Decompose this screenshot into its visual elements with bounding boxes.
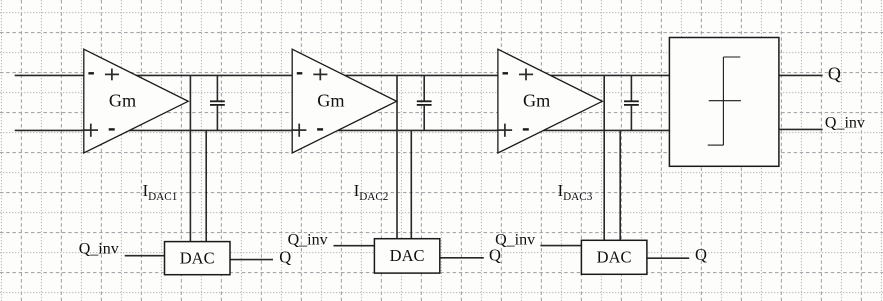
svg-text:Q: Q (279, 248, 291, 267)
svg-text:Q_inv: Q_inv (79, 240, 119, 257)
wire stage2 output node down to DAC2 (plus) (396, 75, 398, 238)
Gm1 input polarity marks (- + / + -) (83, 69, 119, 137)
Gm2 input polarity marks (- + / + -) (291, 69, 327, 137)
wire quantizer output Q (779, 74, 823, 76)
svg-text:Gm: Gm (523, 91, 550, 111)
wire stage1 bottom rail down to DAC1 (minus) (205, 130, 207, 241)
svg-text:Q_inv: Q_inv (495, 232, 535, 249)
comparator / 1-bit quantizer U4 box (669, 38, 779, 167)
node label Q_inv at DAC2 input (288, 231, 328, 248)
capacitor C3 (624, 75, 639, 130)
wire Q feedback into DAC1 (230, 259, 273, 261)
op-amp transconductor Gm2 (292, 49, 396, 153)
svg-text:Gm: Gm (317, 91, 344, 111)
capacitor C2 (417, 75, 432, 130)
node label Q_inv at DAC1 input (79, 240, 119, 257)
node label Q quantizer output (828, 64, 841, 84)
svg-text:DAC: DAC (390, 246, 425, 265)
wire Q feedback into DAC2 (440, 257, 484, 259)
label IDAC3 current (558, 181, 593, 203)
svg-text:DAC: DAC (597, 248, 632, 267)
label IDAC1 current (143, 181, 178, 203)
wire stage3 bottom rail down to DAC3 (minus) (619, 130, 621, 240)
op-amp transconductor Gm1 (84, 49, 188, 153)
wire Q_inv feedback into DAC2 (334, 245, 375, 247)
wire Q_inv feedback into DAC3 (540, 245, 581, 247)
node label Q_inv quantizer output (825, 115, 865, 132)
node label Q at DAC2 input (489, 246, 501, 265)
svg-text:Q: Q (489, 246, 501, 265)
DAC1 block (165, 242, 231, 275)
wire stage3 output node down to DAC3 (plus) (603, 75, 605, 240)
svg-text:Q_inv: Q_inv (288, 231, 328, 248)
wire Q feedback into DAC3 (647, 257, 689, 259)
svg-text:DAC: DAC (180, 248, 215, 267)
wire quantizer output Q_inv (779, 128, 823, 130)
wire stage1 output node down to DAC1 (plus) (189, 75, 191, 241)
op-amp transconductor Gm3 (498, 49, 602, 153)
node label Q at DAC3 input (695, 245, 707, 264)
DAC2 block (374, 239, 439, 273)
svg-text:Gm: Gm (109, 91, 136, 111)
node label Q_inv at DAC3 input (495, 232, 535, 249)
wire Q_inv feedback into DAC1 (125, 255, 165, 257)
label IDAC2 current (354, 181, 389, 203)
svg-text:Q_inv: Q_inv (825, 115, 865, 132)
node label Q at DAC1 input (279, 248, 291, 267)
DAC3 block (581, 240, 647, 274)
wire bottom differential input rail (15, 129, 670, 131)
quantizer sign-function symbol (708, 57, 741, 145)
Gm3 input polarity marks (- + / + -) (497, 69, 533, 137)
svg-text:Q: Q (828, 64, 841, 84)
svg-text:Q: Q (695, 245, 707, 264)
wire top differential input rail (15, 74, 670, 76)
wire stage2 bottom rail down to DAC2 (minus) (410, 130, 412, 238)
capacitor C1 (210, 75, 225, 130)
